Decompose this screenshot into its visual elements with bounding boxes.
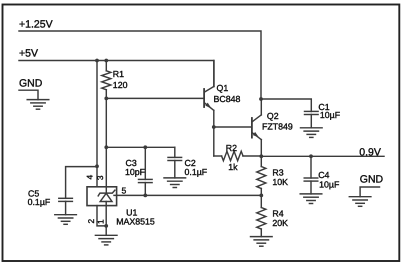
svg-text:R2: R2 [226, 143, 237, 153]
label 120 [113, 80, 128, 90]
label C2 0.1uF [185, 167, 208, 177]
svg-text:FZT849: FZT849 [262, 121, 293, 131]
junction C3 bottom / pin5 wire [143, 194, 147, 198]
svg-text:MAX8515: MAX8515 [116, 217, 155, 227]
svg-text:120: 120 [113, 80, 128, 90]
resistor R1 [102, 61, 111, 99]
wire Q2 emitter down [260, 140, 262, 157]
junction R3/R4/pin5 wire [259, 194, 263, 198]
label BC848 [214, 94, 241, 104]
svg-text:10µF: 10µF [320, 110, 341, 120]
junction +5V / R1 [104, 59, 108, 63]
wire U1 pin5 to R3/R4 junction [114, 194, 261, 196]
pin number 2 [86, 219, 96, 224]
wire R1 to Q1 base [106, 97, 203, 99]
resistor R2 [214, 151, 261, 160]
label C5 [28, 188, 39, 198]
junction C3 top [143, 145, 147, 149]
net label +1.25V [19, 19, 53, 31]
junction +5V / pin4 wire [95, 59, 99, 63]
capacitor C3 [139, 147, 153, 195]
svg-text:3: 3 [95, 175, 105, 180]
svg-text:10µF: 10µF [319, 179, 340, 189]
junction Q1 emitter / Q2 base [212, 125, 216, 129]
ground (left GND) [27, 100, 49, 110]
label R1 [113, 69, 124, 79]
label 20K [272, 218, 288, 228]
svg-text:5: 5 [122, 186, 127, 196]
pin number 1 [96, 219, 106, 224]
wire to C3 and C2 [106, 146, 175, 148]
svg-text:0.1µF: 0.1µF [185, 167, 208, 177]
resistor R3 [257, 156, 266, 195]
svg-text:GND: GND [19, 78, 43, 90]
svg-text:10K: 10K [272, 177, 288, 187]
label C2 [185, 158, 196, 168]
ground (right GND) [349, 197, 371, 207]
zener diode inside U1 [98, 187, 115, 206]
svg-text:Q2: Q2 [267, 111, 279, 121]
wire GND right stub [360, 187, 379, 197]
label Q1 [217, 83, 229, 93]
label R3 [272, 167, 283, 177]
svg-text:4: 4 [85, 175, 95, 180]
wire U1 pin1 [105, 206, 107, 226]
ground (R4) [251, 237, 273, 247]
wire Q1 collector up [213, 61, 215, 87]
resistor R4 [257, 195, 266, 236]
wire C5 branch [66, 167, 97, 199]
junction pin3 wire / C3-C2 wire [104, 145, 108, 149]
svg-text:20K: 20K [272, 218, 288, 228]
pin number 5 [122, 186, 127, 196]
svg-text:0.1µF: 0.1µF [28, 197, 51, 207]
junction R1 bottom / base wire [104, 97, 108, 101]
label U1 [126, 207, 137, 217]
ground (C5) [55, 215, 77, 225]
wire +5V rail [19, 61, 214, 87]
svg-text:1k: 1k [228, 162, 238, 172]
net label GND (right) [360, 174, 384, 186]
label FZT849 [262, 121, 293, 131]
capacitor C5 [59, 198, 73, 214]
wire +1.25V rail [19, 31, 261, 99]
pin number 4 [85, 175, 95, 180]
transistor Q1 BC848 [204, 87, 214, 111]
label C4 [318, 170, 329, 180]
svg-text:2: 2 [86, 219, 96, 224]
IC U1 MAX8515 box [87, 187, 117, 206]
junction U1 pins 1-2 [104, 224, 108, 228]
net label GND (left) [19, 78, 43, 90]
svg-text:BC848: BC848 [214, 94, 241, 104]
wire +5V to U1 pin4 [96, 61, 98, 187]
wire to Q2 base [214, 126, 251, 128]
ground (C2) [164, 178, 186, 188]
wire R1 junction to U1 pin3 [105, 98, 107, 186]
label R2 [226, 143, 237, 153]
junction R2/R3/Q2 emitter [259, 154, 263, 158]
junction Q2 collector / C1 wire [259, 97, 263, 101]
transistor Q2 FZT849 [252, 115, 261, 140]
svg-text:R1: R1 [113, 69, 124, 79]
capacitor C1 [305, 111, 319, 127]
wire GND left stub [19, 90, 38, 99]
svg-text:10pF: 10pF [125, 167, 146, 177]
pin number 3 [95, 175, 105, 180]
label C3 [126, 158, 137, 168]
svg-text:Q1: Q1 [217, 83, 229, 93]
label 10K [272, 177, 288, 187]
label C1 10uF [320, 110, 341, 120]
wire Q2 collector up [260, 99, 262, 115]
label C3 10pF [125, 167, 146, 177]
label MAX8515 [116, 217, 155, 227]
svg-text:1: 1 [96, 219, 106, 224]
junction pin4 wire / C5 branch [95, 164, 99, 168]
svg-text:GND: GND [360, 174, 384, 186]
net label 0.9V [359, 146, 381, 158]
svg-text:R3: R3 [272, 167, 283, 177]
label C1 [318, 102, 329, 112]
svg-text:R4: R4 [272, 208, 283, 218]
svg-text:+5V: +5V [19, 48, 38, 60]
ground (C4) [300, 194, 322, 204]
ground (U1) [95, 226, 117, 245]
wire 0.9V line [261, 155, 384, 157]
label R4 [272, 208, 283, 218]
wire Q1 emitter down [213, 110, 215, 156]
svg-text:+1.25V: +1.25V [19, 19, 53, 31]
label C4 10uF [319, 179, 340, 189]
capacitor C2 [168, 147, 182, 178]
wire to C1 [261, 99, 311, 111]
junction 0.9V / C4 [309, 154, 313, 158]
wire U1 pin2 [97, 206, 106, 226]
label 1k [228, 162, 238, 172]
ground (C1) [301, 128, 323, 138]
svg-text:0.9V: 0.9V [359, 146, 381, 158]
net label +5V [19, 48, 38, 60]
capacitor C4 [304, 156, 318, 194]
label C5 0.1uF [28, 197, 51, 207]
label Q2 [267, 111, 279, 121]
